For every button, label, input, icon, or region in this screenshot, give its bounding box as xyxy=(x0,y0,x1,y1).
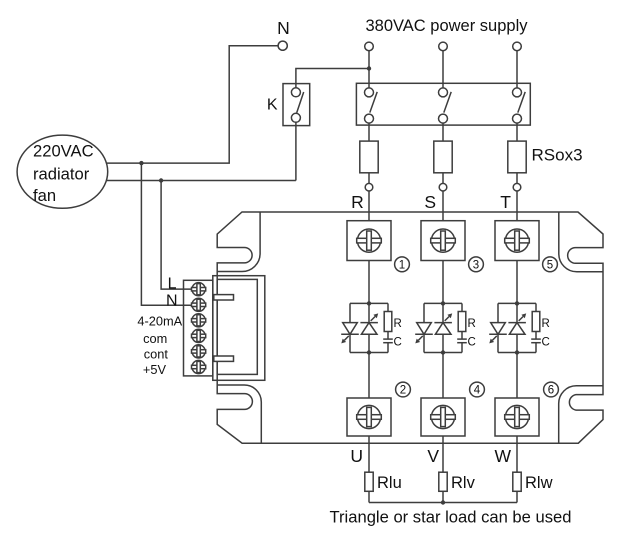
label 220VAC radiator fan xyxy=(33,142,94,206)
svg-text:fan: fan xyxy=(33,186,56,205)
supply terminal R phase xyxy=(365,42,374,51)
wire T line into module xyxy=(516,191,518,221)
wire cell 2 top rail xyxy=(424,302,462,304)
wire terminal 5 to thyristor cell xyxy=(516,261,518,304)
wire live junction to connector L pin xyxy=(161,181,192,290)
wire cell 3 top rail xyxy=(498,302,536,304)
svg-text:L: L xyxy=(168,276,177,293)
terminal N circle xyxy=(278,41,287,50)
capacitor C snubber cell 1 xyxy=(383,339,393,343)
SSR module mounting ear bottom-right xyxy=(559,386,603,443)
svg-text:380VAC power supply: 380VAC power supply xyxy=(365,17,528,35)
thyristor SCR2 (up) xyxy=(360,323,378,335)
wire Rlw to star bus xyxy=(516,491,518,502)
svg-text:Rlu: Rlu xyxy=(377,474,402,492)
wire R phase drop to switch xyxy=(368,51,370,88)
connector J1 pin 1 screw (L) xyxy=(192,283,206,296)
thyristor SCR4 gate arrow xyxy=(445,313,453,321)
wire cell 3 capacitor to bottom rail xyxy=(535,343,537,353)
connector J1 pin 2 screw (N) xyxy=(192,298,206,311)
terminal 3 block (top row) xyxy=(421,221,465,261)
connector J1 pin 6 screw (+5V) xyxy=(192,360,206,373)
svg-text:3: 3 xyxy=(473,260,479,272)
wire T phase drop to switch xyxy=(516,51,518,88)
capacitor C snubber cell 3 xyxy=(531,339,541,343)
fan M1 220VAC radiator fan xyxy=(17,135,108,208)
connector J1 pin 4 screw (com) xyxy=(192,329,206,342)
supply terminal T phase xyxy=(513,42,522,51)
wire cell 1 resistor to capacitor xyxy=(387,332,389,340)
SSR module mounting ear bottom-left xyxy=(217,385,261,443)
svg-text:S: S xyxy=(424,192,436,212)
node cell 1 bottom junction xyxy=(367,350,371,354)
wire S phase drop to switch xyxy=(442,51,444,88)
connector J1 screw strip xyxy=(184,280,213,376)
terminal 4 screw xyxy=(431,405,456,428)
switch Q1 3-pole disconnect body xyxy=(356,83,530,125)
wire cell 3 bottom rail xyxy=(498,352,536,354)
wire cell 3 resistor to capacitor xyxy=(535,332,537,340)
wire terminal 1 to thyristor cell xyxy=(368,261,370,304)
svg-text:6: 6 xyxy=(548,385,554,397)
wire output V xyxy=(442,436,444,472)
wire cell 2 to bottom terminal xyxy=(442,353,444,399)
wire cell 3 centre branch xyxy=(516,303,518,352)
svg-text:Rlw: Rlw xyxy=(525,474,553,492)
wire cell 3 left branch xyxy=(497,303,499,352)
wire cell 3 to bottom terminal xyxy=(516,353,518,399)
svg-text:C: C xyxy=(394,336,402,348)
wire cell 2 capacitor to bottom rail xyxy=(461,343,463,353)
svg-text:1: 1 xyxy=(399,260,405,272)
wire cell 2 left branch xyxy=(423,303,425,352)
thyristor SCR1 gate arrow xyxy=(341,336,349,344)
svg-text:+5V: +5V xyxy=(143,362,167,377)
svg-text:N: N xyxy=(166,293,178,310)
supply terminal S phase xyxy=(439,42,448,51)
wire output U xyxy=(368,436,370,472)
capacitor C snubber cell 2 xyxy=(457,339,467,343)
fuse FU2 xyxy=(434,141,452,173)
wire star point bus xyxy=(369,502,517,504)
fuse FU3 xyxy=(508,141,526,173)
thyristor SCR1 (down) xyxy=(341,323,359,335)
wire cell 2 centre branch xyxy=(442,303,444,352)
terminal 2 block (bottom row) xyxy=(347,398,391,436)
resistor R snubber cell 3 xyxy=(532,312,540,332)
thyristor SCR5 (down) xyxy=(489,323,507,335)
terminal circle below fuse FU3 xyxy=(513,183,521,191)
switch pole S contacts xyxy=(439,88,452,123)
wire S line into module xyxy=(442,191,444,221)
wire cell 1 to bottom terminal xyxy=(368,353,370,399)
connector J1 pin 5 screw (cont) xyxy=(192,345,206,358)
wire switch pole R to fuse xyxy=(368,123,370,141)
terminal 6 screw xyxy=(505,405,530,428)
SSR module U1 outline xyxy=(217,212,603,443)
switch pole T contacts xyxy=(513,88,526,123)
node star point xyxy=(441,500,445,504)
fuse FU1 xyxy=(360,141,378,173)
wire cell 2 resistor to capacitor xyxy=(461,332,463,340)
wire cell 1 capacitor to bottom rail xyxy=(387,343,389,353)
wire switch pole T to fuse xyxy=(516,123,518,141)
svg-text:R: R xyxy=(394,318,402,330)
terminal circle below fuse FU1 xyxy=(365,183,373,191)
wire R line into module xyxy=(368,191,370,221)
label circled 6 xyxy=(544,382,559,397)
svg-text:R: R xyxy=(468,318,476,330)
node cell 2 top junction xyxy=(441,301,445,305)
wire output W xyxy=(516,436,518,472)
wire cell 1 top rail xyxy=(350,302,388,304)
wire cell 3 snubber branch top xyxy=(535,303,537,311)
svg-text:4: 4 xyxy=(474,385,481,397)
thyristor SCR3 (down) xyxy=(415,323,433,335)
connector J1 key tab lower xyxy=(214,356,234,361)
svg-text:U: U xyxy=(350,446,363,466)
wire fuse FU2 to terminal circle xyxy=(442,173,444,184)
thyristor SCR5 gate arrow xyxy=(489,336,497,344)
label circled 5 xyxy=(543,257,558,272)
terminal 5 screw xyxy=(505,229,530,252)
terminal 1 screw xyxy=(357,229,382,252)
svg-text:C: C xyxy=(468,336,476,348)
svg-text:RSox3: RSox3 xyxy=(532,146,583,165)
wire terminal 3 to thyristor cell xyxy=(442,261,444,304)
wire cell 2 snubber branch top xyxy=(461,303,463,311)
svg-text:radiator: radiator xyxy=(33,165,90,184)
svg-text:5: 5 xyxy=(547,260,553,272)
svg-text:R: R xyxy=(351,192,364,212)
svg-text:N: N xyxy=(277,18,290,38)
wire neutral junction to connector N pin xyxy=(141,163,192,305)
thyristor SCR6 (up) xyxy=(508,323,526,335)
svg-text:K: K xyxy=(267,97,278,114)
label circled 3 xyxy=(469,257,484,272)
resistor Rlw load xyxy=(513,472,521,491)
SSR module mounting ear top-left xyxy=(217,212,260,272)
wire live from fan to K xyxy=(106,180,296,182)
thyristor SCR2 gate arrow xyxy=(371,313,379,321)
svg-text:W: W xyxy=(494,446,511,466)
wire fuse FU1 to terminal circle xyxy=(368,173,370,184)
wire K bottom to fan live line xyxy=(295,122,297,180)
svg-text:Rlv: Rlv xyxy=(451,474,476,492)
resistor Rlv load xyxy=(439,472,447,491)
wire K top to phase R junction xyxy=(296,69,369,88)
svg-text:V: V xyxy=(427,446,439,466)
label circled 2 xyxy=(396,382,411,397)
contactor K body xyxy=(283,84,310,126)
terminal 4 block (bottom row) xyxy=(421,398,465,436)
node cell 3 top junction xyxy=(515,301,519,305)
resistor Rlu load xyxy=(365,472,373,491)
svg-text:C: C xyxy=(542,336,550,348)
resistor R snubber cell 2 xyxy=(458,312,466,332)
node neutral junction A xyxy=(139,161,143,165)
switch pole R contacts xyxy=(365,88,378,123)
svg-text:Triangle or star load can be u: Triangle or star load can be used xyxy=(330,507,572,526)
connector J1 pin 3 screw (4-20mA) xyxy=(192,314,206,327)
wire fuse FU3 to terminal circle xyxy=(516,173,518,184)
terminal 1 block (top row) xyxy=(347,221,391,261)
terminal 6 block (bottom row) xyxy=(495,398,539,436)
connector J1 housing inner xyxy=(217,279,257,374)
node cell 1 top junction xyxy=(367,301,371,305)
node live junction B xyxy=(159,178,163,182)
terminal 5 block (top row) xyxy=(495,221,539,261)
svg-text:R: R xyxy=(542,318,550,330)
node K supply junction xyxy=(367,66,371,70)
node cell 3 bottom junction xyxy=(515,350,519,354)
svg-text:220VAC: 220VAC xyxy=(33,142,94,161)
node cell 2 bottom junction xyxy=(441,350,445,354)
wire neutral from fan to N terminal xyxy=(106,46,278,163)
thyristor SCR3 gate arrow xyxy=(415,336,423,344)
wire cell 1 left branch xyxy=(349,303,351,352)
svg-text:4-20mA: 4-20mA xyxy=(137,314,182,329)
svg-text:com: com xyxy=(143,331,167,346)
resistor R snubber cell 1 xyxy=(384,312,392,332)
terminal circle below fuse FU2 xyxy=(439,183,447,191)
svg-text:2: 2 xyxy=(400,385,406,397)
wire Rlv to star bus xyxy=(442,491,444,502)
wire cell 2 bottom rail xyxy=(424,352,462,354)
thyristor SCR4 (up) xyxy=(434,323,452,335)
contactor K contacts xyxy=(291,88,303,123)
wire cell 1 centre branch xyxy=(368,303,370,352)
label circled 1 xyxy=(395,257,410,272)
SSR module mounting ear top-right xyxy=(559,212,603,272)
wire cell 1 snubber branch top xyxy=(387,303,389,311)
terminal 2 screw xyxy=(357,405,382,428)
wire cell 1 bottom rail xyxy=(350,352,388,354)
wire switch pole S to fuse xyxy=(442,123,444,141)
svg-text:T: T xyxy=(500,192,511,212)
connector J1 key tab upper xyxy=(214,295,234,300)
wire Rlu to star bus xyxy=(368,491,370,502)
thyristor SCR6 gate arrow xyxy=(519,313,527,321)
svg-text:cont: cont xyxy=(144,347,169,362)
label circled 4 xyxy=(470,382,485,397)
connector J1 housing outer xyxy=(213,276,265,381)
terminal 3 screw xyxy=(431,229,456,252)
